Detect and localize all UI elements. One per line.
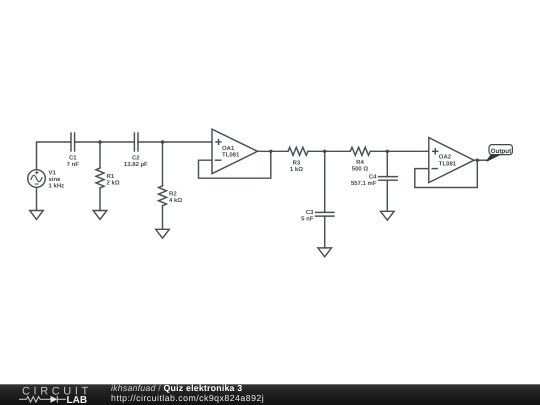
- svg-text:http://circuitlab.com/ck9qx824: http://circuitlab.com/ck9qx824a892j: [111, 393, 264, 403]
- svg-text:C1: C1: [69, 155, 77, 162]
- svg-text:LAB: LAB: [67, 395, 88, 405]
- svg-text:sine: sine: [49, 176, 62, 183]
- svg-text:OA1: OA1: [222, 145, 235, 152]
- svg-text:5 nF: 5 nF: [301, 216, 314, 223]
- svg-text:R2: R2: [169, 191, 177, 198]
- svg-text:R1: R1: [107, 173, 115, 180]
- svg-text:7 nF: 7 nF: [67, 161, 80, 168]
- svg-text:2 kΩ: 2 kΩ: [107, 179, 120, 186]
- svg-text:V1: V1: [49, 169, 57, 176]
- svg-text:557.1 mF: 557.1 mF: [351, 180, 377, 187]
- svg-text:ikhsanfuad / Quiz elektronika: ikhsanfuad / Quiz elektronika 3: [111, 383, 242, 393]
- svg-text:1 kHz: 1 kHz: [49, 182, 65, 189]
- svg-text:R3: R3: [293, 159, 301, 166]
- svg-text:C3: C3: [306, 209, 314, 216]
- svg-text:13.82 µF: 13.82 µF: [124, 161, 148, 168]
- svg-text:TL081: TL081: [439, 161, 457, 168]
- svg-text:OA2: OA2: [439, 154, 452, 161]
- svg-text:R4: R4: [356, 159, 364, 166]
- svg-text:C2: C2: [132, 155, 140, 162]
- svg-text:Output: Output: [491, 148, 513, 155]
- svg-text:4 kΩ: 4 kΩ: [169, 197, 182, 204]
- svg-text:C4: C4: [369, 173, 377, 180]
- svg-text:TL081: TL081: [222, 152, 240, 159]
- svg-text:500 Ω: 500 Ω: [352, 165, 369, 172]
- svg-text:1 kΩ: 1 kΩ: [290, 166, 303, 173]
